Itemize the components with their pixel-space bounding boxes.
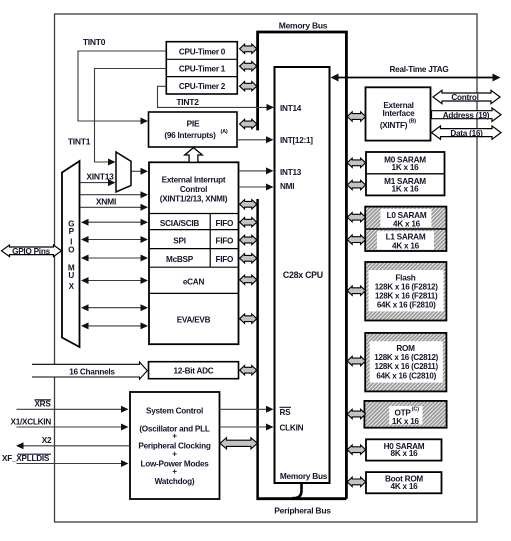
svg-text:eCAN: eCAN <box>183 277 205 286</box>
svg-text:128K x 16 (C2812): 128K x 16 (C2812) <box>374 353 438 362</box>
wire XNMI from GPIO MUX to External Interrupt Control <box>81 206 142 208</box>
svg-text:XRS: XRS <box>34 400 51 409</box>
svg-text:U: U <box>68 271 74 280</box>
svg-text:L1 SARAM: L1 SARAM <box>386 233 426 242</box>
bus arrow memory bus to Flash <box>347 286 365 295</box>
bus arrow memory bus to ROM <box>347 356 365 365</box>
svg-text:8K x 16: 8K x 16 <box>391 449 419 458</box>
svg-text:CPU-Timer 2: CPU-Timer 2 <box>179 82 226 91</box>
block arrow External Interrupt Control to PIE <box>185 148 203 163</box>
svg-text:(96 Interrupts): (96 Interrupts) <box>164 131 216 140</box>
svg-text:+: + <box>172 449 177 458</box>
svg-text:1K x 16: 1K x 16 <box>392 184 420 193</box>
peripheral stack row dividers (SCIA/SPI/McBSP/eCAN/EVA) <box>149 213 239 215</box>
svg-text:(XINT1/2/13, XNMI): (XINT1/2/13, XNMI) <box>160 194 228 203</box>
svg-text:EVA/EVB: EVA/EVB <box>177 315 211 324</box>
bus arrow eCAN to peripheral bus <box>240 275 257 284</box>
CPU-Timer block (3 rows) <box>166 42 237 94</box>
svg-text:(A): (A) <box>221 129 228 135</box>
svg-text:+: + <box>172 467 177 476</box>
bus arrow PIE to peripheral bus <box>240 119 257 128</box>
memory bus trunk (top horizontal + right vertical) <box>258 32 347 499</box>
bus arrow System Control to peripheral bus (wide) <box>220 438 257 449</box>
svg-text:4K x 16: 4K x 16 <box>392 241 420 250</box>
svg-text:XF_XPLLDIS: XF_XPLLDIS <box>2 454 50 463</box>
svg-text:Memory Bus: Memory Bus <box>280 471 328 481</box>
svg-text:System Control: System Control <box>146 406 203 415</box>
bus arrow memory bus to H0 SARAM <box>347 445 365 454</box>
Address bus arrow <box>432 108 502 121</box>
memory bus left vertical upper segment <box>256 31 259 131</box>
svg-text:Control: Control <box>451 93 478 102</box>
pin XF_XPLLDIS input line <box>17 463 122 465</box>
svg-text:(B): (B) <box>409 119 416 125</box>
pin XRS input line <box>17 408 122 410</box>
svg-text:Address (19): Address (19) <box>443 111 490 120</box>
wire CLKIN from System Control to CPU <box>220 426 267 428</box>
GPIO MUX trapezoid <box>62 161 80 347</box>
wire GPIO MUX to McBSP (bidirectional) <box>87 257 141 259</box>
wire TINT2 from CPU-Timer 2 to CPU INT14 <box>158 86 273 107</box>
svg-text:X: X <box>69 282 75 291</box>
bus arrow memory bus to L1 SARAM <box>347 235 365 244</box>
svg-text:O: O <box>68 246 75 255</box>
svg-text:128K x 16 (F2812): 128K x 16 (F2812) <box>375 283 438 292</box>
svg-text:SPI: SPI <box>173 236 185 245</box>
PIE block (96 interrupts) <box>149 112 238 147</box>
svg-text:1K x 16: 1K x 16 <box>392 417 420 426</box>
svg-text:Flash: Flash <box>395 274 415 283</box>
bus arrow EVA/EVB to peripheral bus <box>240 314 257 323</box>
wire TINT0 from CPU-Timer 0 to PIE <box>78 51 166 121</box>
wire Real-Time JTAG <box>332 77 499 79</box>
svg-text:NMI: NMI <box>280 182 294 191</box>
svg-text:64K x 16 (C2810): 64K x 16 (C2810) <box>376 371 436 380</box>
System Control block <box>130 392 220 499</box>
svg-text:Real-Time JTAG: Real-Time JTAG <box>390 65 449 74</box>
svg-text:X2: X2 <box>42 436 52 445</box>
svg-text:128K x 16 (C2811): 128K x 16 (C2811) <box>375 362 439 371</box>
svg-text:INT[12:1]: INT[12:1] <box>280 136 313 145</box>
svg-text:FIFO: FIFO <box>215 255 234 264</box>
svg-text:+: + <box>172 432 177 441</box>
device outer frame <box>55 14 478 522</box>
svg-text:Interface: Interface <box>383 109 416 118</box>
H0 SARAM block <box>366 439 442 460</box>
mux for TINT1/XINT13 <box>116 152 131 192</box>
wire GPIO MUX to EVA/EVB b (bidirectional) <box>87 325 141 327</box>
svg-text:16 Channels: 16 Channels <box>69 368 115 377</box>
bus arrow External Interrupt Control to peripheral bus <box>240 200 257 209</box>
svg-text:CLKIN: CLKIN <box>280 424 304 433</box>
svg-text:TINT1: TINT1 <box>68 137 91 147</box>
Data bus arrow <box>432 126 502 139</box>
svg-text:External Interrupt: External Interrupt <box>162 176 226 185</box>
svg-text:RS: RS <box>280 408 292 417</box>
svg-text:TINT2: TINT2 <box>176 97 199 107</box>
wire GPIO MUX to EVA/EVB a (bidirectional) <box>87 307 141 309</box>
svg-text:Memory Bus: Memory Bus <box>279 20 328 30</box>
svg-text:12-Bit ADC: 12-Bit ADC <box>174 366 214 375</box>
bus arrow CPU-Timer 2 to peripheral bus <box>240 82 257 91</box>
svg-text:4K x 16: 4K x 16 <box>391 482 419 491</box>
svg-text:SCIA/SCIB: SCIA/SCIB <box>160 219 199 228</box>
bus arrow memory bus to M0 SARAM <box>347 158 365 167</box>
svg-text:Watchdog): Watchdog) <box>155 477 195 486</box>
svg-text:Control: Control <box>180 185 207 194</box>
bus arrow memory bus to L0 SARAM <box>347 213 365 222</box>
svg-text:P: P <box>69 227 75 236</box>
svg-text:(XINTF): (XINTF) <box>380 121 408 130</box>
bus arrow 12-Bit ADC to peripheral bus <box>240 366 257 375</box>
svg-text:128K x 16 (F2811): 128K x 16 (F2811) <box>375 291 438 300</box>
svg-text:1K x 16: 1K x 16 <box>392 163 420 172</box>
svg-text:McBSP: McBSP <box>166 255 194 264</box>
svg-text:CPU-Timer 1: CPU-Timer 1 <box>179 65 226 74</box>
svg-text:X1/XCLKIN: X1/XCLKIN <box>10 418 51 427</box>
bus arrow memory bus to XINTF <box>347 112 365 121</box>
bus arrow CPU-Timer 1 to peripheral bus <box>240 62 257 71</box>
svg-text:CPU-Timer 0: CPU-Timer 0 <box>179 47 226 56</box>
Flash block (hatched) <box>365 262 446 321</box>
GPIO Pins double arrow <box>2 245 62 257</box>
wire TINT1 from CPU-Timer 1 to mux <box>95 69 167 163</box>
Boot ROM block <box>366 472 442 493</box>
peripheral bus bottom trunk <box>256 497 346 500</box>
16 Channels wide arrow to ADC <box>32 362 147 379</box>
wire NMI from External Interrupt Control to CPU <box>239 186 272 188</box>
OTP block (hatched) <box>364 401 446 428</box>
svg-text:FIFO: FIFO <box>215 236 234 245</box>
svg-text:Data (16): Data (16) <box>450 129 483 138</box>
wire memory-bus stub from C28x CPU bottom <box>292 483 302 498</box>
wire mux output to External Interrupt Control <box>132 170 142 172</box>
wire GPIO MUX to SCIA/SCIB (bidirectional) <box>87 221 141 223</box>
svg-text:PIE: PIE <box>187 118 201 128</box>
pin X1/XCLKIN input line <box>17 426 122 428</box>
svg-text:Peripheral Bus: Peripheral Bus <box>274 506 331 516</box>
L0 SARAM block (hatched) <box>365 207 446 251</box>
wire XINT1/XINT2 from GPIO MUX to External Interrupt Control <box>81 194 142 196</box>
svg-text:ROM: ROM <box>396 344 415 353</box>
wire RS from System Control to CPU <box>220 408 267 410</box>
bus arrow memory bus to M1 SARAM <box>347 180 365 189</box>
bus arrow SCIA/SCIB to peripheral bus <box>240 218 257 227</box>
bus arrow memory bus to Boot ROM <box>347 477 365 486</box>
pin X2 output line <box>23 445 130 447</box>
Control bus arrow <box>433 90 500 103</box>
svg-text:INT14: INT14 <box>280 104 302 113</box>
wire XINT13 from GPIO MUX to mux <box>81 182 109 184</box>
bus arrow CPU-Timer 0 to peripheral bus <box>240 44 257 53</box>
FIFO column divider <box>209 214 211 268</box>
M0 SARAM block <box>366 152 445 195</box>
svg-text:FIFO: FIFO <box>215 219 234 228</box>
External Interface (XINTF) block <box>366 87 431 140</box>
wire INT[12:1] from PIE to CPU <box>237 139 272 141</box>
wire GPIO MUX to SPI (bidirectional) <box>87 239 141 241</box>
bus arrow SPI to peripheral bus <box>240 235 257 244</box>
svg-text:INT13: INT13 <box>280 168 302 177</box>
ROM block (hatched) <box>365 333 446 392</box>
External Interrupt Control block <box>149 162 239 344</box>
svg-text:XNMI: XNMI <box>96 197 116 207</box>
svg-text:XINT13: XINT13 <box>86 171 114 181</box>
bus arrow memory bus to OTP <box>347 409 365 418</box>
svg-text:GPIO Pins: GPIO Pins <box>12 247 50 256</box>
svg-text:TINT0: TINT0 <box>83 37 106 47</box>
svg-text:4K x 16: 4K x 16 <box>393 219 421 228</box>
L1 SARAM block (hatched) <box>377 231 434 250</box>
C28x CPU block <box>275 67 330 483</box>
12-Bit ADC block <box>149 362 239 379</box>
svg-text:64K x 16 (F2810): 64K x 16 (F2810) <box>377 300 436 309</box>
bus arrow McBSP to peripheral bus <box>240 254 257 263</box>
wire INT13 from External Interrupt Control to CPU <box>239 170 272 172</box>
svg-text:C28x CPU: C28x CPU <box>283 270 323 280</box>
svg-text:(C): (C) <box>412 406 419 412</box>
peripheral bus left vertical segment <box>256 199 259 499</box>
wire GPIO MUX to eCAN (bidirectional) <box>87 280 141 282</box>
